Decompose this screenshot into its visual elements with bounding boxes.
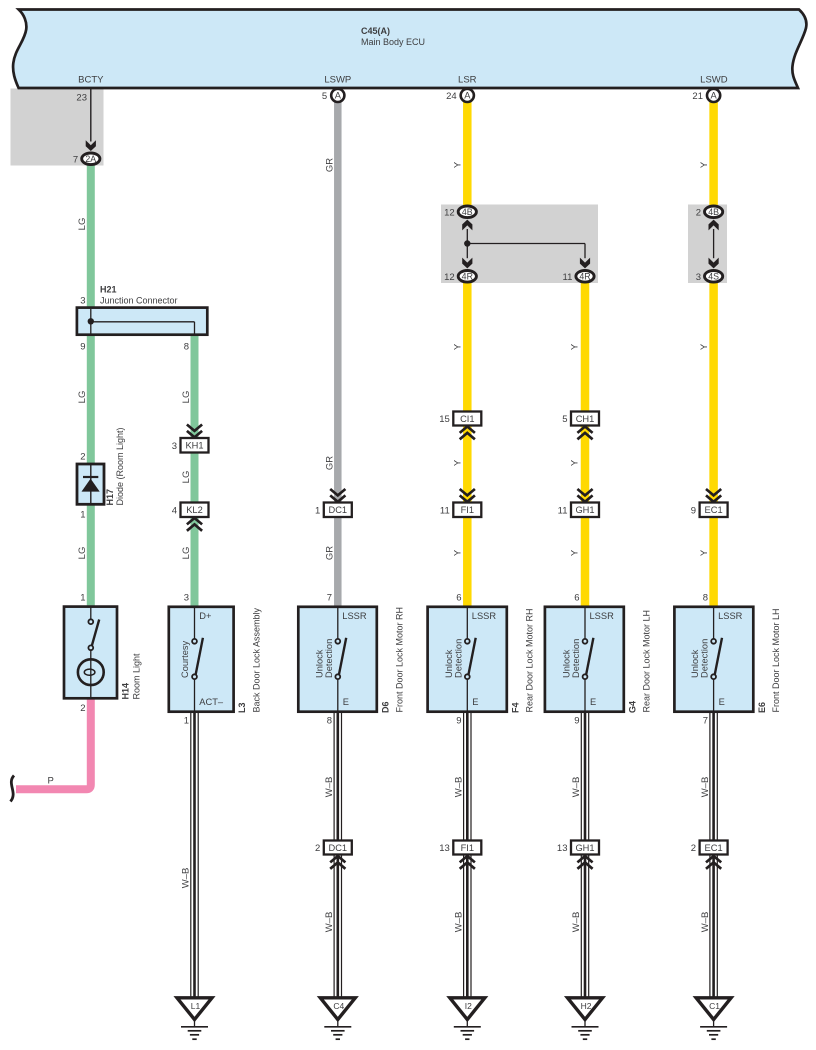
- svg-text:DC1: DC1: [328, 505, 347, 515]
- svg-text:Y: Y: [453, 459, 464, 466]
- svg-text:E: E: [719, 697, 725, 707]
- svg-text:4S: 4S: [708, 271, 719, 281]
- svg-text:9: 9: [691, 505, 696, 516]
- svg-text:FI1: FI1: [461, 505, 474, 515]
- svg-text:GH1: GH1: [575, 843, 594, 853]
- svg-text:Y: Y: [699, 549, 710, 556]
- svg-text:A: A: [335, 91, 342, 101]
- svg-text:Front Door Lock Motor LH: Front Door Lock Motor LH: [771, 608, 781, 712]
- svg-text:P: P: [48, 776, 54, 787]
- svg-text:24: 24: [446, 91, 457, 102]
- svg-text:LG: LG: [181, 547, 192, 560]
- svg-text:8: 8: [703, 593, 708, 604]
- svg-text:G4: G4: [627, 701, 637, 713]
- svg-text:6: 6: [456, 593, 461, 604]
- svg-text:Courtesy: Courtesy: [180, 640, 190, 678]
- svg-text:5: 5: [562, 414, 567, 425]
- svg-text:E: E: [590, 697, 596, 707]
- svg-text:9: 9: [574, 716, 579, 727]
- svg-text:W–B: W–B: [700, 777, 711, 798]
- svg-text:4: 4: [172, 505, 177, 516]
- svg-text:4R: 4R: [579, 271, 590, 281]
- svg-text:Y: Y: [570, 549, 581, 556]
- svg-text:E6: E6: [757, 702, 767, 713]
- svg-text:LSSR: LSSR: [342, 611, 367, 621]
- svg-text:1: 1: [80, 510, 85, 521]
- svg-text:FI1: FI1: [461, 843, 474, 853]
- svg-text:Room Light: Room Light: [131, 653, 141, 700]
- svg-text:Detection: Detection: [571, 639, 581, 678]
- svg-text:11: 11: [440, 505, 450, 516]
- svg-text:W–B: W–B: [571, 777, 582, 798]
- svg-text:3: 3: [184, 593, 189, 604]
- svg-text:KL2: KL2: [186, 505, 203, 515]
- svg-text:W–B: W–B: [324, 912, 335, 933]
- svg-text:Y: Y: [570, 343, 581, 350]
- svg-text:Y: Y: [699, 343, 710, 350]
- svg-text:LSSR: LSSR: [590, 611, 615, 621]
- svg-text:9: 9: [80, 342, 85, 353]
- svg-text:H2: H2: [581, 1001, 592, 1011]
- svg-text:Rear Door Lock Motor LH: Rear Door Lock Motor LH: [642, 610, 652, 713]
- svg-text:BCTY: BCTY: [78, 74, 104, 85]
- svg-text:Y: Y: [570, 459, 581, 466]
- svg-text:23: 23: [76, 93, 87, 104]
- svg-text:12: 12: [444, 272, 455, 283]
- svg-text:A: A: [710, 91, 717, 101]
- svg-text:3: 3: [696, 272, 701, 283]
- svg-text:2: 2: [315, 843, 320, 854]
- svg-text:GR: GR: [324, 456, 335, 470]
- svg-text:8: 8: [184, 342, 189, 353]
- svg-text:Junction Connector: Junction Connector: [100, 295, 178, 305]
- svg-text:D6: D6: [380, 701, 390, 713]
- svg-text:LSSR: LSSR: [718, 611, 743, 621]
- svg-text:L3: L3: [237, 702, 247, 713]
- svg-text:7: 7: [73, 154, 78, 165]
- svg-text:C4: C4: [333, 1001, 344, 1011]
- svg-text:9: 9: [456, 716, 461, 727]
- svg-text:L1: L1: [191, 1001, 201, 1011]
- svg-text:3: 3: [172, 441, 177, 452]
- svg-text:Rear Door Lock Motor RH: Rear Door Lock Motor RH: [525, 608, 535, 712]
- svg-text:I2: I2: [465, 1001, 472, 1011]
- svg-text:2: 2: [80, 703, 85, 714]
- svg-text:12: 12: [444, 207, 455, 218]
- svg-text:LG: LG: [77, 391, 88, 404]
- svg-text:GH1: GH1: [575, 505, 594, 515]
- svg-text:LSWD: LSWD: [700, 74, 728, 85]
- svg-text:6: 6: [574, 593, 579, 604]
- svg-text:Unlock: Unlock: [562, 649, 572, 678]
- svg-text:7: 7: [703, 716, 708, 727]
- svg-text:W–B: W–B: [324, 777, 335, 798]
- svg-text:Y: Y: [453, 343, 464, 350]
- svg-text:DC1: DC1: [328, 843, 347, 853]
- svg-text:H21: H21: [100, 285, 117, 295]
- svg-text:H14: H14: [120, 683, 130, 700]
- svg-text:Front Door Lock Motor RH: Front Door Lock Motor RH: [395, 607, 405, 713]
- svg-text:C45(A): C45(A): [361, 26, 390, 36]
- svg-text:LSWP: LSWP: [324, 74, 351, 85]
- svg-text:2: 2: [691, 843, 696, 854]
- svg-text:ACT–: ACT–: [199, 697, 224, 707]
- svg-text:Main Body ECU: Main Body ECU: [361, 37, 425, 47]
- svg-text:W–B: W–B: [700, 912, 711, 933]
- svg-text:CI1: CI1: [460, 414, 474, 424]
- svg-text:1: 1: [184, 716, 189, 727]
- svg-text:C1: C1: [709, 1001, 720, 1011]
- svg-text:11: 11: [563, 272, 573, 283]
- svg-text:EC1: EC1: [705, 505, 723, 515]
- svg-text:2A: 2A: [85, 154, 96, 164]
- svg-text:Unlock: Unlock: [690, 649, 700, 678]
- svg-text:8: 8: [327, 716, 332, 727]
- svg-text:21: 21: [692, 91, 703, 102]
- svg-text:H17: H17: [105, 489, 115, 506]
- svg-text:2: 2: [80, 452, 85, 463]
- svg-text:Y: Y: [699, 161, 710, 168]
- svg-text:LG: LG: [77, 547, 88, 560]
- svg-text:W–B: W–B: [571, 912, 582, 933]
- svg-text:13: 13: [557, 843, 568, 854]
- svg-text:4B: 4B: [462, 207, 473, 217]
- svg-text:E: E: [343, 697, 349, 707]
- svg-text:3: 3: [80, 295, 85, 306]
- svg-text:GR: GR: [324, 546, 335, 560]
- svg-text:11: 11: [558, 505, 568, 516]
- svg-text:A: A: [464, 91, 471, 101]
- svg-text:Unlock: Unlock: [314, 649, 324, 678]
- svg-text:LG: LG: [77, 218, 88, 231]
- svg-text:Unlock: Unlock: [444, 649, 454, 678]
- svg-text:W–B: W–B: [454, 777, 465, 798]
- svg-text:Detection: Detection: [453, 639, 463, 678]
- svg-text:Y: Y: [453, 549, 464, 556]
- svg-text:13: 13: [439, 843, 450, 854]
- svg-text:1: 1: [80, 593, 85, 604]
- svg-text:4R: 4R: [462, 271, 473, 281]
- svg-text:5: 5: [322, 91, 327, 102]
- svg-text:15: 15: [439, 414, 450, 425]
- svg-text:Diode (Room Light): Diode (Room Light): [115, 427, 125, 505]
- svg-text:GR: GR: [324, 158, 335, 172]
- svg-text:LSR: LSR: [458, 74, 477, 85]
- svg-text:1: 1: [315, 505, 320, 516]
- svg-text:LG: LG: [181, 471, 192, 484]
- svg-text:4B: 4B: [708, 207, 719, 217]
- svg-text:D+: D+: [199, 611, 211, 621]
- svg-text:Back Door Lock Assembly: Back Door Lock Assembly: [251, 607, 261, 712]
- svg-text:7: 7: [327, 593, 332, 604]
- svg-text:CH1: CH1: [576, 414, 595, 424]
- svg-text:F4: F4: [510, 702, 520, 713]
- svg-text:EC1: EC1: [705, 843, 723, 853]
- svg-text:Detection: Detection: [324, 639, 334, 678]
- svg-text:KH1: KH1: [185, 441, 203, 451]
- svg-text:LSSR: LSSR: [472, 611, 497, 621]
- svg-text:W–B: W–B: [181, 868, 192, 889]
- svg-text:LG: LG: [181, 391, 192, 404]
- svg-text:Detection: Detection: [700, 639, 710, 678]
- svg-text:W–B: W–B: [454, 912, 465, 933]
- svg-text:2: 2: [696, 207, 701, 218]
- svg-text:E: E: [472, 697, 478, 707]
- svg-text:Y: Y: [453, 161, 464, 168]
